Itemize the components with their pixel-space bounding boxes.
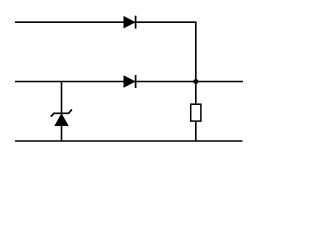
wire middle horizontal	[15, 81, 243, 83]
resistor R1	[191, 104, 201, 121]
wire top horizontal with corner into right vertical	[15, 22, 196, 104]
wire zener branch vertical	[61, 82, 63, 142]
wire resistor to bottom line	[195, 121, 197, 141]
wire bottom horizontal	[15, 140, 243, 142]
diode D2	[124, 75, 136, 88]
node junction dot	[193, 79, 198, 84]
zener diode Z1	[51, 109, 72, 125]
diode D1	[124, 16, 136, 29]
